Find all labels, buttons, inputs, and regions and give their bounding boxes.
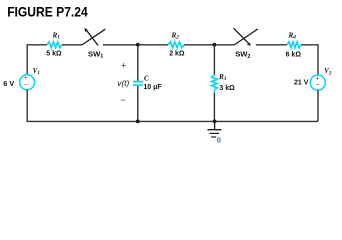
R3 branch bottom wire [213,93,215,121]
wire SW2 to R4 [256,44,287,46]
svg-text:v(t): v(t) [117,78,129,88]
svg-text:R2: R2 [171,31,180,40]
svg-text:V2: V2 [324,68,332,76]
svg-text:FIGURE P7.24: FIGURE P7.24 [7,4,88,20]
ground symbol [214,121,216,129]
svg-text:R4: R4 [288,31,297,40]
svg-text:SW2: SW2 [235,50,250,60]
svg-text:R1: R1 [52,31,61,40]
wire R2 to node B [184,44,235,46]
svg-text:−: − [316,81,320,88]
junction dot at ground node [213,120,217,124]
svg-text:SW1: SW1 [88,49,103,59]
resistor R4 [287,42,301,48]
capacitor C branch top wire [137,45,139,81]
voltage source V1 [20,75,35,90]
wire top-right corner [301,45,318,75]
resistor R2 [168,42,184,48]
capacitor C plates [133,81,143,83]
svg-text:R3: R3 [218,73,227,82]
node A junction dot (top of capacitor branch) [136,43,140,47]
svg-text:21 V: 21 V [294,79,309,86]
svg-text:C: C [144,74,149,82]
junction dot bottom of capacitor branch [136,120,140,124]
resistor R3 [212,75,218,93]
svg-text:6 V: 6 V [3,79,14,88]
voltage source V2 [310,75,325,90]
svg-text:+: + [121,61,126,71]
svg-text:2 kΩ: 2 kΩ [169,51,185,58]
wire top-left corner segment [27,45,47,75]
svg-text:10 μF: 10 μF [143,84,162,91]
capacitor C branch bottom wire [137,86,139,121]
svg-text:−: − [120,95,125,105]
svg-text:V1: V1 [33,68,40,76]
switch SW2 arrow [234,28,249,43]
wire SW1 to node A [103,44,168,46]
switch SW1 arrow [86,30,98,45]
svg-text:5 kΩ: 5 kΩ [46,51,62,58]
switch SW2 blade [235,29,258,45]
svg-text:6 kΩ: 6 kΩ [286,51,302,58]
svg-text:−: − [24,81,28,88]
resistor R3 branch top wire [213,45,215,75]
svg-text:0: 0 [217,135,221,144]
wire V1 to bottom-left corner [27,90,138,122]
svg-text:3 kΩ: 3 kΩ [219,85,235,92]
switch SW1 blade [82,29,106,45]
resistor R1 [47,42,62,48]
bottom wire middle [138,120,318,122]
wire V2 to bottom-right corner [317,90,319,121]
wire R1 to SW1 [62,44,82,46]
node B junction dot (top of R3 branch) [213,43,217,47]
